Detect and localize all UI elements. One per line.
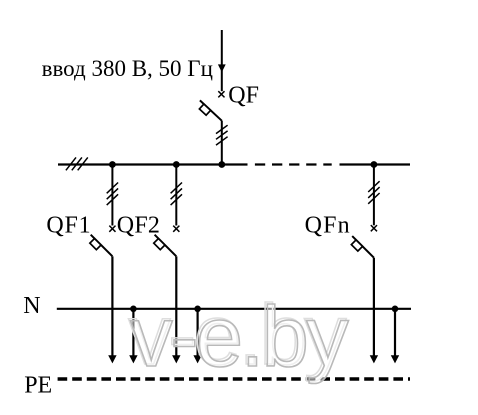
arrow: feed direction down bbox=[218, 64, 226, 72]
wire: N tap 1 bbox=[132, 309, 134, 357]
breaker QF1 flag bbox=[90, 239, 101, 250]
svg-text:QF2: QF2 bbox=[117, 213, 160, 239]
wire: incoming feeder vertical bbox=[221, 30, 223, 91]
arrow: branch n load bbox=[370, 355, 378, 363]
3-phase slashes on QF drop bbox=[216, 125, 228, 145]
breaker QF flag bbox=[199, 104, 210, 115]
busbar solid left bbox=[58, 163, 248, 165]
breaker QFn flag bbox=[351, 240, 362, 251]
breaker QFn arm bbox=[352, 236, 374, 258]
3-phase slashes on busbar left end bbox=[66, 157, 88, 170]
node: QF/busbar junction bbox=[218, 161, 225, 168]
wire: branch 2 drop bbox=[175, 165, 177, 226]
node: N tap 1 bbox=[130, 306, 137, 313]
breaker QF2 arm bbox=[155, 235, 177, 257]
svg-text:QF: QF bbox=[228, 83, 259, 109]
3-phase slashes branch 2 bbox=[171, 183, 182, 206]
wire: QF to busbar bbox=[221, 121, 223, 165]
node: branch n junction bbox=[371, 161, 378, 168]
arrow: N tap 1 bbox=[129, 355, 137, 363]
breaker QF1 arm bbox=[91, 235, 113, 257]
breaker QFn contact x bbox=[371, 225, 377, 231]
wire: branch n drop bbox=[373, 165, 375, 226]
arrow: branch 1 load bbox=[108, 355, 116, 363]
svg-text:QF1: QF1 bbox=[46, 213, 91, 239]
breaker QF2 flag bbox=[154, 239, 165, 250]
breaker QF2 contact x bbox=[173, 226, 179, 232]
svg-text:QFn: QFn bbox=[305, 213, 351, 239]
svg-text:ввод 380 В, 50 Гц: ввод 380 В, 50 Гц bbox=[42, 56, 213, 81]
wire: branch 1 drop bbox=[111, 165, 113, 226]
wire: branch n to load bbox=[373, 258, 375, 357]
wire: N bus bbox=[57, 308, 411, 310]
3-phase slashes branch 1 bbox=[107, 183, 118, 206]
svg-text:PE: PE bbox=[24, 372, 52, 398]
busbar dashed middle bbox=[255, 163, 332, 165]
busbar solid right bbox=[340, 163, 411, 165]
arrow: N tap 2 bbox=[193, 355, 201, 363]
svg-text:N: N bbox=[23, 293, 40, 319]
3-phase slashes branch n bbox=[368, 181, 379, 204]
watermark v-e.by bbox=[128, 288, 349, 385]
arrow: N tap n bbox=[391, 355, 399, 363]
breaker QF contact x bbox=[218, 91, 224, 97]
node: branch 1 junction bbox=[109, 161, 116, 168]
node: branch 2 junction bbox=[173, 161, 180, 168]
node: N tap 2 bbox=[194, 306, 201, 313]
wire: branch 1 to load bbox=[111, 256, 113, 356]
arrow: branch 2 load bbox=[172, 355, 180, 363]
svg-text:v-e.by: v-e.by bbox=[130, 290, 349, 385]
breaker QF1 contact x bbox=[109, 226, 115, 232]
wire: N tap n bbox=[394, 309, 396, 357]
breaker QF arm bbox=[200, 100, 222, 120]
wire: branch 2 to load bbox=[175, 256, 177, 356]
wire: N tap 2 bbox=[197, 309, 199, 357]
node: N tap n bbox=[392, 306, 399, 313]
wire: PE bus dashed bbox=[58, 377, 410, 380]
